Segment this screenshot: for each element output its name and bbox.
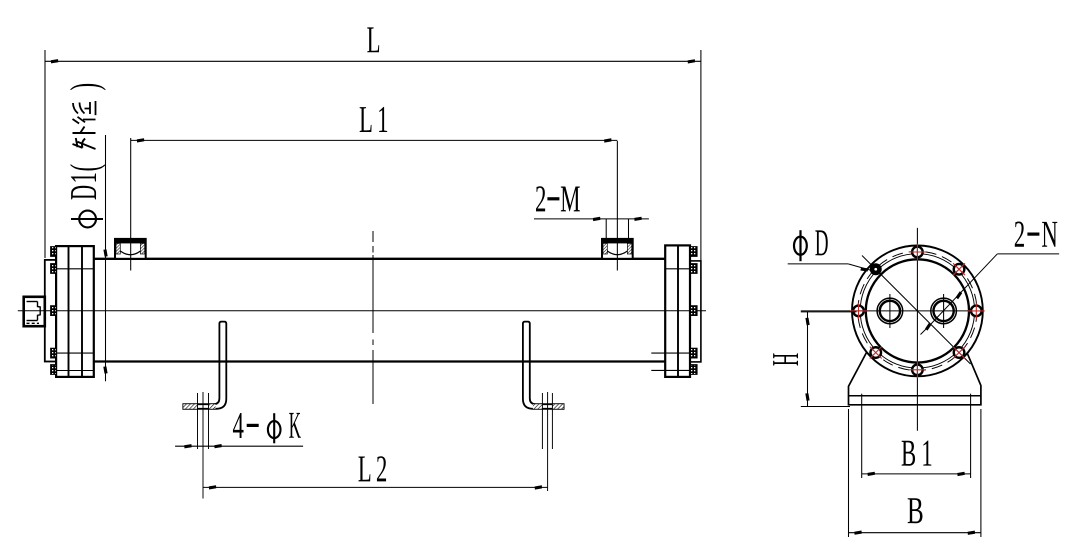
dim L1 line [131, 139, 617, 141]
bolt circle dash-dot [858, 251, 977, 370]
bolt holes (8) [853, 247, 981, 375]
dim H text rotated [773, 353, 798, 365]
bonnet bolt axis line low2 [56, 370, 94, 372]
right bracket leg [523, 322, 564, 409]
dim L text [367, 27, 379, 52]
right bolts [691, 247, 698, 375]
right bracket hole centerline [547, 392, 549, 491]
left bracket hole edge lines [197, 393, 199, 449]
end view horizontal centerline [801, 310, 970, 312]
right flange bolt axis top [665, 268, 690, 270]
phi glyph [71, 211, 103, 228]
label phiD [794, 230, 828, 261]
top-right nozzle centerline [616, 141, 618, 271]
dim 4-phiK text [233, 413, 244, 438]
left bracket leg [183, 322, 226, 409]
shell top line [94, 258, 665, 260]
bonnet bolt axis line low1 [56, 352, 94, 354]
vertical centerline mid-shell [372, 231, 374, 404]
shell bottom line [94, 360, 665, 362]
end view vertical centerline [916, 228, 918, 431]
left port vertical centerline [889, 294, 891, 328]
right port [931, 298, 957, 324]
dim B text [908, 498, 923, 523]
dim 2-M text [536, 186, 545, 211]
dim L1 text [360, 107, 372, 132]
red center marks on bolt holes [850, 244, 985, 379]
bolt circle thin [860, 254, 974, 368]
right port vertical centerline [943, 294, 945, 328]
dim L2 text [358, 457, 370, 482]
top-right nozzle [602, 239, 633, 259]
left bracket hole centerline [202, 392, 204, 499]
dim L line [45, 60, 701, 62]
dim B [848, 409, 850, 537]
diagonal centerline through NW/SE holes [862, 256, 971, 365]
right flange internal vertical [677, 245, 679, 377]
dim B1 [861, 394, 863, 478]
left bolts [51, 247, 57, 375]
label 2-N with leader [1015, 222, 1024, 247]
right end plate [690, 261, 701, 362]
horizontal centerline of side view [18, 310, 706, 312]
top-left nozzle centerline [130, 138, 132, 271]
left end plate [45, 260, 56, 362]
bonnet bolt axis line top [56, 268, 94, 270]
CJK jing [73, 101, 96, 124]
dim 2-M line [534, 218, 649, 220]
dim phiD1 rotated label [70, 84, 106, 227]
right bracket hole edge lines [541, 393, 543, 449]
right flange bolt axis low1 [651, 352, 690, 354]
dim H [801, 311, 857, 313]
top-left nozzle [115, 239, 146, 259]
dim B1 text [902, 441, 915, 466]
west nozzle [24, 297, 45, 326]
NW bolt hole covered by phiD arrowhead [870, 263, 882, 275]
flange inner circle [866, 259, 969, 362]
end view pedestal [849, 353, 981, 405]
bonnet internal vertical 1 [68, 246, 70, 377]
CJK wai [73, 127, 96, 150]
phi glyph in 4-phiK [268, 421, 281, 438]
dim 4-phiK line [175, 445, 303, 447]
dim L2 line [203, 486, 548, 488]
dim L extension lines [44, 50, 46, 258]
right flange bolt axis low2 [651, 369, 690, 371]
left bonnet block [56, 246, 94, 377]
right flange [665, 245, 690, 377]
flange outer circle [852, 246, 983, 377]
bonnet internal vertical 2 [81, 246, 83, 377]
dim phiD1 line [105, 135, 107, 381]
left port [877, 298, 903, 324]
